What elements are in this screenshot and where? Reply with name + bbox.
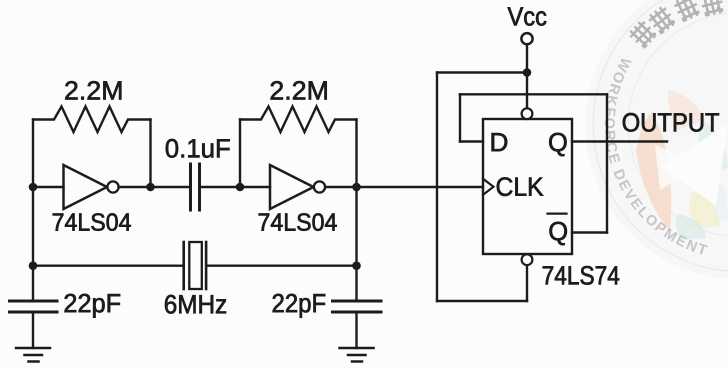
capacitor C3 0.1uF right plate [198, 164, 201, 210]
inverter U1B 74LS04 triangle [270, 165, 314, 209]
wire: node to U1A input [33, 186, 64, 188]
value label 6MHz (Y1) [165, 295, 226, 314]
inverter U1B output bubble [314, 181, 325, 192]
wire: node to U1B input [240, 186, 270, 188]
pin label D [492, 133, 508, 151]
wire: crystal right lead to right rail [207, 265, 356, 267]
crystal Y1 6MHz body rectangle [189, 242, 202, 289]
crystal Y1 6MHz left plate [182, 242, 185, 289]
fake CJK watermark glyphs along top arc [627, 0, 725, 50]
node: U1A input dot [29, 183, 38, 192]
node: U1B output dot [352, 183, 361, 192]
flip-flop U2 74LS74 body [483, 119, 572, 254]
ground symbol (right) [340, 348, 374, 362]
wire: feedback drop to D level [459, 94, 461, 141]
capacitor C2 22pF plates (right) [333, 301, 382, 312]
Vcc terminal circle [521, 33, 532, 44]
value label 2.2M (R2) [271, 81, 327, 99]
capacitor C1 22pF plates (left) [10, 301, 58, 312]
watermark logo (faint agency seal, top right) [585, 0, 728, 280]
wire: Vcc junction to left rail [437, 71, 527, 73]
wire: Qbar feedback top run [460, 93, 607, 95]
value label 0.1uF (C3) [166, 139, 230, 158]
wire: Qbar feedback vertical riser [606, 94, 608, 232]
wire: left supply rail down [436, 73, 438, 302]
net label OUTPUT [623, 113, 719, 132]
inverter U1A 74LS04 triangle [64, 165, 108, 209]
node: U1B input dot [236, 183, 245, 192]
resistor R1 2.2M (left feedback), with top loop leads [33, 107, 151, 133]
part label 74LS04 (U1B) [259, 213, 337, 231]
CLR pin bubble (bottom of U2) [522, 254, 533, 265]
resistor R2 2.2M (right feedback), with top loop leads [240, 107, 357, 133]
value label 22pF (C2) [273, 294, 326, 318]
CLK edge-trigger triangle on U2 [483, 179, 494, 195]
wire: U1A bubble to node at x=150.5 [119, 186, 151, 188]
pin label Q [549, 133, 566, 156]
wire: left rail x=33 from resistor loop down to C1 top plate [32, 120, 34, 300]
value label 2.2M (R1) [65, 81, 121, 99]
ground symbol (left) [16, 348, 50, 362]
wire: Q output to OUTPUT [572, 140, 667, 142]
wire: into D pin [460, 140, 483, 142]
wire: bottom run across to CLR [437, 300, 527, 302]
node: U1A output dot [146, 183, 155, 192]
wire: up into CLR bubble [526, 265, 528, 301]
wire: node to C3 left plate [151, 186, 190, 188]
part label 74LS74 (U2) [543, 266, 619, 285]
crystal Y1 6MHz right plate [205, 242, 208, 289]
pin label Qbar [550, 222, 567, 245]
PRE pin bubble (top of U2) [522, 108, 533, 119]
wire: C1 bottom plate to ground [32, 314, 34, 349]
node: crystal left dot [29, 261, 38, 270]
capacitor C3 0.1uF left plate [189, 164, 192, 210]
wire: crystal left lead from left rail [33, 265, 183, 267]
wire: C2 bottom plate to ground [355, 314, 357, 349]
node: crystal right dot [352, 261, 361, 270]
net label Vcc [508, 7, 547, 25]
wire: R1 loop right side down to inverter output node [149, 120, 151, 188]
wire: C3 right plate to node x=240 [201, 186, 240, 188]
inverter U1A output bubble [107, 181, 118, 192]
wire: Qbar pin out of U2 [572, 231, 607, 233]
part label 74LS04 (U1A) [53, 213, 131, 231]
wire: Vcc stem down to PRE bubble [526, 44, 528, 108]
node: Vcc junction dot [523, 68, 532, 77]
wire: U1B bubble to node then CLK line to flip-flop [325, 186, 483, 188]
wire: right rail x=356.5 from R2 loop down to C2 top plate [355, 120, 357, 300]
wire: R2 loop left side down to node [239, 120, 241, 188]
overbar of Qbar label [548, 213, 567, 215]
pin label CLK [497, 177, 544, 196]
value label 22pF (C1) [65, 294, 121, 318]
